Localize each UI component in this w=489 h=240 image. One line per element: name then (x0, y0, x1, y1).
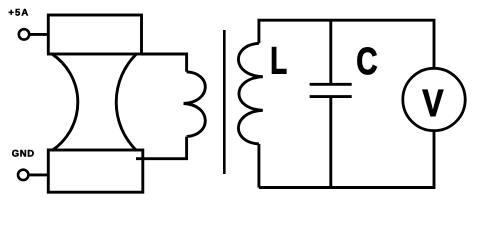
transducer top electrode (48, 15, 141, 54)
label L (270, 41, 287, 83)
wire (257, 144, 260, 188)
svg-text:GND: GND (12, 149, 35, 160)
transducer bottom electrode (48, 150, 143, 192)
wire (142, 54, 187, 72)
transducer crystal body (52, 54, 136, 151)
svg-text:C: C (356, 41, 377, 83)
wire secondary top (259, 20, 434, 68)
primary coil (184, 72, 206, 137)
wire (28, 173, 48, 176)
wire secondary bottom (259, 131, 434, 188)
terminal +5A (19, 29, 29, 39)
wire (29, 33, 48, 36)
transformer core (223, 30, 226, 174)
svg-text:L: L (270, 41, 287, 83)
wire (136, 137, 187, 159)
label V (422, 83, 444, 125)
svg-text:V: V (422, 83, 444, 125)
voltmeter V (403, 68, 465, 130)
svg-text:+5A: +5A (8, 7, 29, 18)
label C (356, 41, 377, 83)
inductor L (238, 43, 262, 144)
terminal GND (18, 170, 28, 180)
capacitor C (310, 20, 352, 187)
